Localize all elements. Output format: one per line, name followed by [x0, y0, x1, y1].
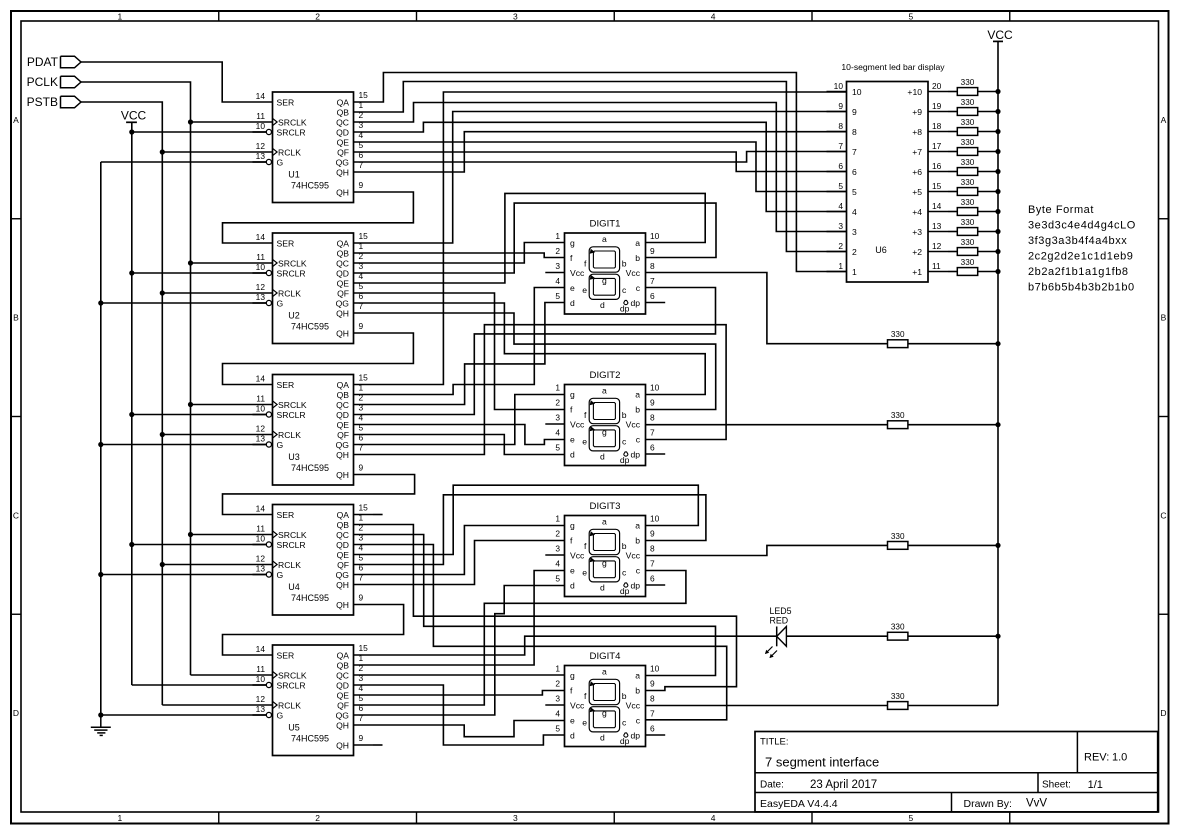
- wire U5 QD to DIGIT4 d: [373, 685, 565, 745]
- svg-text:9: 9: [650, 398, 655, 408]
- svg-text:b: b: [622, 258, 627, 268]
- svg-text:U1: U1: [288, 170, 300, 180]
- svg-text:U4: U4: [288, 582, 300, 592]
- junction: [995, 209, 1000, 214]
- wire G rail (ground bus): [100, 162, 102, 715]
- svg-text:5: 5: [555, 443, 560, 453]
- svg-text:U6: U6: [875, 245, 887, 255]
- svg-text:1: 1: [118, 813, 123, 823]
- svg-text:9: 9: [650, 679, 655, 689]
- U3 clock triangle RCLK: [273, 431, 278, 438]
- wire SRCLR branch U5: [132, 684, 266, 686]
- svg-text:8: 8: [650, 544, 655, 554]
- DIGIT1 glyph dp mark: [624, 300, 628, 304]
- junction: [98, 300, 103, 305]
- svg-text:SRCLK: SRCLK: [278, 530, 307, 540]
- svg-text:QA: QA: [337, 651, 350, 661]
- svg-text:c: c: [622, 718, 627, 728]
- svg-text:1: 1: [555, 664, 560, 674]
- svg-text:dp: dp: [620, 303, 630, 313]
- svg-text:QE: QE: [337, 691, 350, 701]
- wire U5 QB to DIGIT3 e: [373, 571, 565, 666]
- svg-text:d: d: [600, 582, 605, 592]
- svg-text:VCC: VCC: [987, 28, 1013, 42]
- svg-text:PSTB: PSTB: [27, 95, 58, 109]
- svg-text:g: g: [602, 276, 607, 286]
- DIGIT3 glyph upper ring (segments a f b g): [589, 529, 619, 554]
- wire U3 QA to U6 pin 10: [373, 92, 847, 385]
- wire cascade U4 QH' to U5 SER: [223, 605, 404, 656]
- svg-text:7: 7: [650, 428, 655, 438]
- svg-text:dp: dp: [630, 450, 640, 460]
- svg-text:QH: QH: [336, 309, 349, 319]
- wire U2 QH to DIGIT2 b: [373, 313, 716, 410]
- svg-text:a: a: [602, 666, 607, 676]
- wire U2 QF to DIGIT2 f: [373, 293, 565, 410]
- svg-text:e: e: [582, 568, 587, 578]
- svg-text:7: 7: [852, 147, 857, 157]
- svg-text:15: 15: [359, 503, 369, 513]
- svg-text:SRCLR: SRCLR: [277, 128, 306, 138]
- svg-text:14: 14: [256, 644, 266, 654]
- svg-text:SRCLR: SRCLR: [277, 681, 306, 691]
- svg-text:QH: QH: [336, 168, 349, 178]
- wire G branch U2: [101, 302, 266, 304]
- svg-text:DIGIT1: DIGIT1: [590, 219, 621, 230]
- svg-text:+5: +5: [912, 187, 922, 197]
- svg-text:11: 11: [256, 111, 265, 121]
- svg-text:QH: QH: [336, 721, 349, 731]
- svg-text:SRCLK: SRCLK: [278, 259, 307, 269]
- svg-text:330: 330: [961, 178, 975, 187]
- svg-text:6: 6: [650, 443, 655, 453]
- svg-text:QH: QH: [336, 329, 349, 339]
- wire RCLK branch U3: [162, 434, 252, 436]
- svg-text:Vcc: Vcc: [626, 551, 641, 561]
- svg-text:a: a: [635, 671, 640, 681]
- DIGIT3 pin 3 stub: [545, 554, 564, 556]
- wire U2 QG to DIGIT2 a: [373, 303, 705, 395]
- svg-text:5: 5: [555, 574, 560, 584]
- svg-text:QE: QE: [337, 138, 350, 148]
- svg-text:QH: QH: [336, 470, 349, 480]
- svg-text:TITLE:: TITLE:: [760, 737, 789, 748]
- wire cascade U1 QH' to U2 SER: [223, 192, 414, 243]
- svg-text:330: 330: [961, 98, 975, 107]
- DIGIT2 pin 3 stub: [545, 423, 564, 425]
- svg-text:9: 9: [359, 593, 364, 603]
- svg-text:74HC595: 74HC595: [291, 181, 329, 191]
- svg-text:8: 8: [650, 694, 655, 704]
- wire cascade U2 QH' to U3 SER: [223, 333, 414, 385]
- svg-text:Sheet:: Sheet:: [1042, 780, 1071, 791]
- svg-text:14: 14: [256, 232, 266, 242]
- svg-text:Vcc: Vcc: [570, 701, 585, 711]
- svg-text:U2: U2: [288, 311, 300, 321]
- svg-text:PCLK: PCLK: [27, 75, 58, 89]
- svg-text:QB: QB: [337, 390, 350, 400]
- svg-text:G: G: [277, 711, 284, 721]
- svg-text:QD: QD: [336, 269, 349, 279]
- wire VCC rail left (SRCLR bus): [131, 122, 133, 685]
- svg-text:2: 2: [555, 679, 560, 689]
- svg-text:9: 9: [359, 180, 364, 190]
- DIGIT1 glyph arrows: [590, 249, 596, 254]
- svg-text:330: 330: [961, 258, 975, 267]
- svg-text:d: d: [600, 300, 605, 310]
- svg-text:D: D: [13, 708, 19, 718]
- svg-text:a: a: [635, 521, 640, 531]
- svg-text:QH: QH: [336, 450, 349, 460]
- junction: [188, 119, 193, 124]
- svg-text:4: 4: [838, 201, 843, 211]
- svg-text:REV:: REV:: [1084, 752, 1109, 764]
- U1 pin stubs left: [253, 101, 273, 103]
- svg-text:8: 8: [650, 413, 655, 423]
- wire RCLK branch U1: [162, 151, 252, 153]
- svg-text:5: 5: [838, 181, 843, 191]
- wire resistor to VCC rail: [948, 231, 957, 233]
- wire SRCLK branch U1: [191, 121, 253, 123]
- svg-text:Vcc: Vcc: [570, 420, 585, 430]
- wire SRCLR branch U2: [132, 272, 266, 274]
- DIGIT1 glyph lower ring (segments g e c d): [589, 274, 619, 299]
- svg-text:QC: QC: [336, 530, 349, 540]
- junction: [160, 432, 165, 437]
- svg-text:5: 5: [909, 12, 914, 22]
- junction: [160, 149, 165, 154]
- svg-text:1.0: 1.0: [1112, 752, 1127, 764]
- svg-text:Vcc: Vcc: [626, 701, 641, 711]
- svg-text:2c2g2d2e1c1d1eb9: 2c2g2d2e1c1d1eb9: [1028, 250, 1133, 262]
- svg-text:d: d: [600, 732, 605, 742]
- wire G branch U3: [101, 444, 266, 446]
- svg-text:330: 330: [961, 238, 975, 247]
- junction: [98, 572, 103, 577]
- U2 inversion bubble G: [266, 300, 271, 305]
- wire DIGIT3 Vcc to resistor R13: [646, 545, 888, 555]
- svg-text:DIGIT2: DIGIT2: [590, 370, 621, 381]
- DIGIT2 glyph arrows: [590, 400, 596, 405]
- svg-text:12: 12: [932, 241, 942, 251]
- svg-text:QB: QB: [337, 661, 350, 671]
- svg-text:9: 9: [359, 733, 364, 743]
- wire U1 QA to U6 pin 1: [373, 73, 847, 272]
- wire U1 QH to U6 pin 8: [373, 132, 847, 172]
- wire DIGIT1 Vcc to resistor R11: [646, 273, 888, 344]
- svg-text:3f3g3a3b4f4a4bxx: 3f3g3a3b4f4a4bxx: [1028, 235, 1127, 247]
- svg-text:7: 7: [650, 276, 655, 286]
- svg-text:RCLK: RCLK: [278, 701, 301, 711]
- svg-text:d: d: [570, 731, 575, 741]
- U5 clock triangle SRCLK: [273, 671, 278, 678]
- svg-text:VCC: VCC: [121, 109, 147, 123]
- wire G branch U4: [101, 574, 266, 576]
- svg-text:b: b: [622, 410, 627, 420]
- svg-text:SER: SER: [277, 651, 295, 661]
- svg-text:4: 4: [711, 813, 716, 823]
- wire U1 QG to U6 pin 7: [373, 152, 847, 163]
- DIGIT3 glyph dp mark: [624, 583, 628, 587]
- wire resistor to VCC rail: [948, 271, 957, 273]
- junction: [188, 532, 193, 537]
- U6 right pin stubs: [928, 91, 948, 93]
- wire RCLK branch U4: [162, 564, 252, 566]
- wire U3 QH to DIGIT2 c: [373, 325, 726, 455]
- wire SRCLR branch U4: [132, 544, 266, 546]
- svg-text:g: g: [570, 238, 575, 248]
- frame zone ticks left: [11, 218, 21, 220]
- svg-text:12: 12: [256, 424, 266, 434]
- svg-text:a: a: [635, 238, 640, 248]
- svg-text:QC: QC: [336, 400, 349, 410]
- svg-text:b: b: [622, 541, 627, 551]
- svg-text:c: c: [636, 435, 641, 445]
- svg-text:17: 17: [932, 141, 942, 151]
- svg-text:b7b6b5b4b3b2b1b0: b7b6b5b4b3b2b1b0: [1028, 281, 1135, 293]
- svg-text:4: 4: [555, 276, 560, 286]
- display DIGIT2 body: [565, 385, 646, 466]
- svg-text:QA: QA: [337, 98, 350, 108]
- DIGIT1 pin 6 dp stub: [646, 302, 666, 304]
- DIGIT1 glyph upper ring (segments a f b g): [589, 247, 619, 272]
- svg-text:Vcc: Vcc: [626, 268, 641, 278]
- svg-text:10: 10: [650, 383, 660, 393]
- svg-text:+8: +8: [912, 127, 922, 137]
- wire SRCLR branch U3: [132, 414, 266, 416]
- svg-text:b: b: [635, 686, 640, 696]
- svg-text:14: 14: [256, 504, 266, 514]
- svg-text:3: 3: [513, 12, 518, 22]
- svg-text:RCLK: RCLK: [278, 289, 301, 299]
- svg-text:7 segment interface: 7 segment interface: [765, 755, 879, 770]
- svg-text:3: 3: [838, 221, 843, 231]
- svg-text:c: c: [636, 716, 641, 726]
- wire U4 QF to DIGIT3 b: [373, 495, 706, 565]
- LED5 arrows: [766, 647, 773, 654]
- junction: [995, 109, 1000, 114]
- svg-text:e: e: [570, 716, 575, 726]
- U4 inversion bubble SRCLR: [266, 542, 271, 547]
- wire RCLK branch U5: [162, 704, 252, 706]
- svg-text:+2: +2: [912, 247, 922, 257]
- U1 clock triangle SRCLK: [273, 118, 278, 125]
- svg-text:SRCLR: SRCLR: [277, 540, 306, 550]
- svg-text:10: 10: [650, 664, 660, 674]
- svg-text:QF: QF: [337, 289, 349, 299]
- svg-text:dp: dp: [630, 581, 640, 591]
- wire resistor to VCC rail: [948, 111, 957, 113]
- wire U2 QC to DIGIT1 g: [373, 243, 565, 264]
- svg-text:VvV: VvV: [1026, 798, 1047, 810]
- svg-text:QD: QD: [336, 681, 349, 691]
- DIGIT4 glyph dp mark: [624, 733, 628, 737]
- U5 clock triangle RCLK: [273, 701, 278, 708]
- svg-text:QH: QH: [336, 580, 349, 590]
- svg-text:B: B: [13, 313, 19, 323]
- wire SRCLR branch U1: [132, 131, 266, 133]
- shift register U2 74HC595 body: [273, 233, 354, 344]
- svg-text:QD: QD: [336, 410, 349, 420]
- svg-text:b: b: [635, 536, 640, 546]
- wire VCC rail right: [997, 41, 999, 705]
- svg-text:PDAT: PDAT: [27, 55, 59, 69]
- wire resistor to VCC rail: [948, 151, 957, 153]
- svg-text:dp: dp: [630, 731, 640, 741]
- svg-text:C: C: [1160, 510, 1166, 520]
- wire U4 QD to DIGIT4 c: [373, 545, 727, 720]
- svg-text:6: 6: [650, 291, 655, 301]
- svg-text:b: b: [635, 405, 640, 415]
- svg-text:c: c: [622, 285, 627, 295]
- DIGIT1 pin 3 stub: [545, 272, 564, 274]
- svg-text:Drawn By:: Drawn By:: [964, 798, 1012, 810]
- frame zone ticks bottom: [218, 812, 220, 824]
- svg-text:74HC595: 74HC595: [291, 734, 329, 744]
- wire U5 QE to DIGIT4 f: [373, 691, 565, 696]
- wire U2 QB to DIGIT1 f: [373, 253, 565, 258]
- svg-text:4: 4: [555, 428, 560, 438]
- junction: [98, 442, 103, 447]
- svg-text:d: d: [600, 451, 605, 461]
- svg-text:+10: +10: [907, 87, 922, 97]
- svg-text:g: g: [570, 390, 575, 400]
- wire U2 QD to DIGIT1 b: [373, 203, 716, 273]
- svg-text:15: 15: [359, 643, 369, 653]
- wire resistor to VCC rail: [948, 191, 957, 193]
- junction: [995, 543, 1000, 548]
- junction: [995, 189, 1000, 194]
- wire U3 QF to DIGIT2 d: [373, 435, 565, 455]
- svg-text:20: 20: [932, 81, 942, 91]
- svg-text:5: 5: [909, 813, 914, 823]
- svg-text:a: a: [602, 234, 607, 244]
- svg-text:G: G: [277, 299, 284, 309]
- svg-text:+4: +4: [912, 207, 922, 217]
- svg-text:QG: QG: [336, 299, 350, 309]
- display DIGIT4 body: [565, 666, 646, 747]
- svg-text:5: 5: [555, 291, 560, 301]
- DIGIT3 glyph arrows: [590, 531, 596, 536]
- junction: [160, 562, 165, 567]
- svg-text:QF: QF: [337, 701, 349, 711]
- title block: [755, 732, 1158, 812]
- wire U1 QD to U6 pin 4: [373, 122, 847, 211]
- junction: [995, 129, 1000, 134]
- svg-text:3e3d3c4e4d4g4cLO: 3e3d3c4e4d4g4cLO: [1028, 219, 1136, 231]
- U2 pin stubs left: [253, 242, 273, 244]
- wire U5 QG to DIGIT3 d: [373, 586, 565, 716]
- wire U1 QC to U6 pin 3: [373, 103, 847, 232]
- svg-text:SER: SER: [277, 510, 295, 520]
- wire U3 QD to DIGIT1 c: [373, 288, 716, 415]
- svg-text:+7: +7: [912, 147, 922, 157]
- wire U3 QC to DIGIT1 d: [373, 303, 565, 405]
- svg-text:EasyEDA V4.4.4: EasyEDA V4.4.4: [760, 798, 838, 810]
- wire PCLK rail (SRCLK bus): [81, 82, 191, 675]
- svg-text:330: 330: [891, 330, 905, 339]
- svg-text:SRCLR: SRCLR: [277, 410, 306, 420]
- svg-text:Date:: Date:: [760, 780, 784, 791]
- svg-text:SRCLR: SRCLR: [277, 269, 306, 279]
- U4 clock triangle RCLK: [273, 561, 278, 568]
- svg-text:10: 10: [852, 87, 862, 97]
- svg-text:G: G: [277, 440, 284, 450]
- display DIGIT1 body: [565, 233, 646, 314]
- wire SRCLK branch U2: [191, 262, 253, 264]
- svg-text:11: 11: [256, 394, 265, 404]
- svg-text:15: 15: [359, 231, 369, 241]
- ground symbol: [100, 715, 102, 727]
- wire resistor to VCC rail: [948, 171, 957, 173]
- svg-text:330: 330: [891, 532, 905, 541]
- svg-text:c: c: [636, 283, 641, 293]
- svg-text:SRCLK: SRCLK: [278, 400, 307, 410]
- U1 pin stubs right: [354, 101, 374, 103]
- svg-text:U5: U5: [288, 723, 300, 733]
- wire U2 QA to U6 pin 9: [373, 112, 847, 244]
- svg-text:23 April 2017: 23 April 2017: [810, 779, 877, 791]
- DIGIT2 pin 6 dp stub: [646, 453, 666, 455]
- svg-text:12: 12: [256, 554, 266, 564]
- svg-text:11: 11: [256, 664, 265, 674]
- svg-text:SER: SER: [277, 98, 295, 108]
- wire U4 QH to DIGIT3 f: [373, 541, 565, 585]
- svg-text:QH: QH: [336, 600, 349, 610]
- wire U3 QB to DIGIT1 e: [373, 288, 565, 395]
- svg-text:QF: QF: [337, 430, 349, 440]
- svg-text:3: 3: [852, 227, 857, 237]
- DIGIT4 pin 6 dp stub: [646, 734, 666, 736]
- wire LED5 to resistor R14: [787, 635, 888, 637]
- svg-text:2b2a2f1b1a1g1fb8: 2b2a2f1b1a1g1fb8: [1028, 266, 1129, 278]
- U4 clock triangle SRCLK: [273, 531, 278, 538]
- svg-text:15: 15: [932, 181, 942, 191]
- svg-text:12: 12: [256, 282, 266, 292]
- junction: [129, 129, 134, 134]
- U5 inversion bubble G: [266, 712, 271, 717]
- svg-text:g: g: [602, 558, 607, 568]
- svg-text:d: d: [570, 581, 575, 591]
- svg-text:4: 4: [852, 207, 857, 217]
- svg-text:g: g: [570, 521, 575, 531]
- svg-text:SER: SER: [277, 380, 295, 390]
- svg-text:3: 3: [555, 413, 560, 423]
- svg-text:dp: dp: [620, 455, 630, 465]
- svg-text:dp: dp: [630, 298, 640, 308]
- wire resistor to VCC rail: [948, 91, 957, 93]
- U3 pin stubs right: [354, 384, 374, 386]
- svg-text:330: 330: [961, 138, 975, 147]
- svg-text:QH: QH: [336, 188, 349, 198]
- svg-text:a: a: [602, 385, 607, 395]
- wire RCLK branch U2: [162, 292, 252, 294]
- U5 inversion bubble SRCLR: [266, 682, 271, 687]
- junction: [995, 249, 1000, 254]
- shift register U4 74HC595 body: [273, 505, 354, 616]
- svg-text:QA: QA: [337, 239, 350, 249]
- svg-text:330: 330: [961, 218, 975, 227]
- svg-text:QB: QB: [337, 520, 350, 530]
- svg-text:12: 12: [256, 694, 266, 704]
- svg-text:e: e: [582, 718, 587, 728]
- wire U3 QE to DIGIT2 e: [373, 425, 565, 445]
- svg-text:c: c: [636, 566, 641, 576]
- svg-text:QE: QE: [337, 420, 350, 430]
- svg-text:4: 4: [555, 709, 560, 719]
- svg-text:12: 12: [256, 141, 266, 151]
- svg-text:7: 7: [650, 559, 655, 569]
